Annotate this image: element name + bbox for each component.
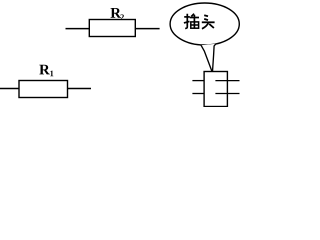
wire [68, 88, 92, 90]
plug body [204, 72, 227, 107]
plug pin bottom-right [215, 93, 239, 95]
label 插头 (char 头) [202, 15, 215, 29]
wire [135, 28, 159, 30]
callout bubble [170, 3, 239, 45]
callout tail [201, 44, 216, 72]
plug pin top-right [215, 80, 239, 82]
label R1 [39, 65, 50, 75]
label 插头 (char 插) [184, 14, 199, 29]
plug pin bottom-left [192, 93, 204, 95]
wire [0, 88, 19, 90]
resistor R1 [19, 81, 68, 98]
resistor R2 [89, 20, 135, 37]
wire [66, 28, 90, 30]
label R2 [111, 8, 122, 18]
plug pin top-left [192, 80, 204, 82]
